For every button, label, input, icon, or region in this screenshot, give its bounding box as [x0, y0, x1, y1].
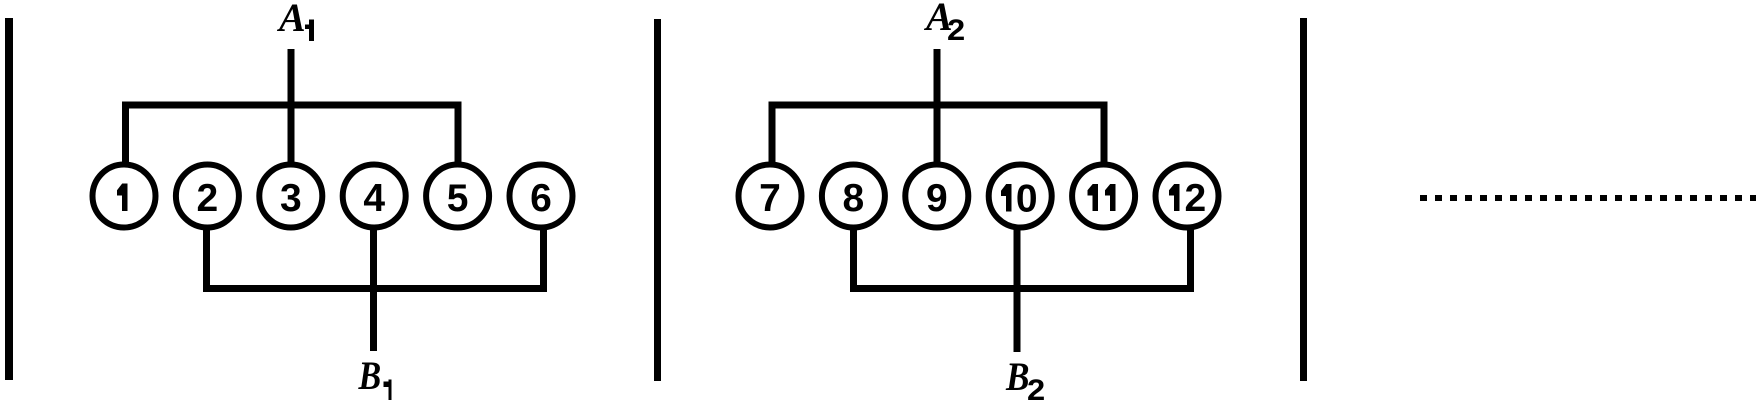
- node 9: [905, 165, 968, 228]
- separator bar right: [1300, 18, 1307, 381]
- node 6: [510, 165, 573, 228]
- node 8: [822, 165, 885, 228]
- node 1: [93, 165, 156, 228]
- wire B2 stem: [1014, 227, 1021, 352]
- svg-text:0: 0: [1016, 178, 1038, 221]
- wire A2 top bus: [772, 105, 1104, 165]
- label A1: [276, 0, 314, 41]
- wire A2 stem: [934, 49, 941, 165]
- svg-text:2: 2: [947, 13, 965, 46]
- wire B1 bottom bus: [207, 227, 544, 289]
- svg-text:6: 6: [530, 177, 552, 220]
- svg-text:B: B: [358, 355, 382, 399]
- svg-text:2: 2: [1184, 177, 1206, 220]
- svg-text:3: 3: [280, 177, 302, 220]
- separator bar middle: [654, 19, 661, 381]
- svg-text:8: 8: [843, 177, 865, 220]
- svg-text:B: B: [1005, 355, 1029, 400]
- svg-text:2: 2: [1027, 373, 1045, 404]
- dotted continuation line: [1420, 195, 1756, 201]
- svg-text:2: 2: [197, 177, 219, 220]
- label B2: [1005, 355, 1045, 404]
- label A2: [923, 0, 965, 47]
- svg-text:5: 5: [447, 177, 469, 220]
- wire B1 stem: [370, 227, 377, 351]
- separator bar left: [5, 18, 13, 380]
- node 3: [259, 165, 322, 228]
- svg-text:4: 4: [363, 177, 385, 220]
- node 5: [426, 165, 489, 228]
- wire A1 stem: [288, 49, 295, 165]
- node 2: [176, 165, 239, 228]
- wire B2 bottom bus: [854, 227, 1191, 289]
- label B1: [358, 355, 392, 400]
- node 12: [1156, 165, 1219, 228]
- svg-text:7: 7: [759, 177, 781, 220]
- node 4: [343, 165, 406, 228]
- node 7: [739, 165, 802, 228]
- node 10: [989, 165, 1052, 228]
- wire A1 top bus: [126, 105, 459, 165]
- svg-text:9: 9: [926, 177, 948, 220]
- node 11: [1072, 165, 1135, 228]
- svg-text:A: A: [276, 0, 306, 40]
